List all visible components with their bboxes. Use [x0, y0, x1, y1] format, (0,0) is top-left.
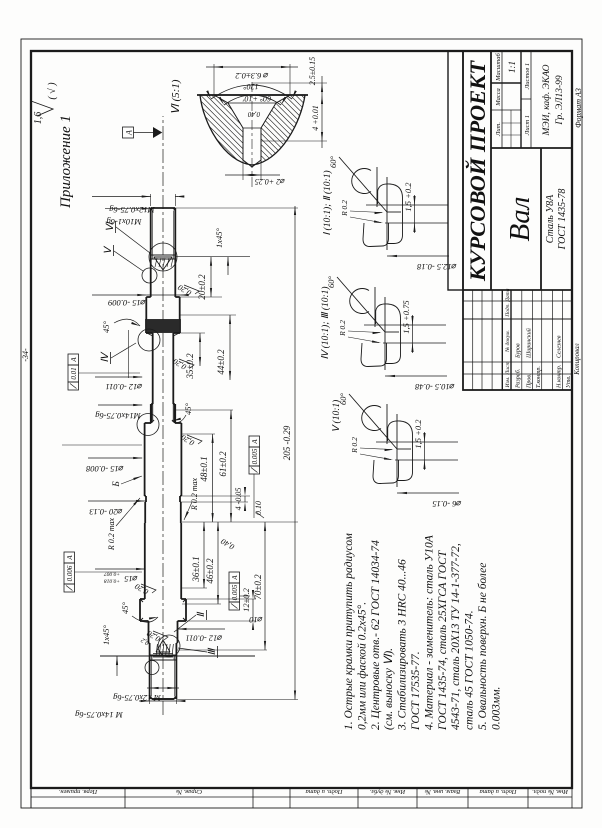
dim 205-0.29 — [294, 206, 296, 700]
svg-text:А: А — [70, 357, 78, 363]
dim 70±0.2 — [264, 522, 266, 650]
svg-text:ГОСТ 1435-74, сталь 25ХГСА ГОС: ГОСТ 1435-74, сталь 25ХГСА ГОСТ — [437, 549, 449, 731]
callout circle knurl left groove — [138, 329, 160, 351]
svg-text:( √ ): ( √ ) — [47, 82, 58, 100]
svg-text:Сталь У8А: Сталь У8А — [545, 194, 556, 243]
svg-text:Ⅵ (5:1): Ⅵ (5:1) — [170, 79, 182, 114]
tolerance frame 0.005|A below left — [229, 602, 240, 610]
svg-text:А: А — [66, 555, 74, 561]
groove detail Ⅰ (10:1); Ⅱ (10:1) dia dim — [387, 255, 449, 257]
thread line right — [152, 211, 154, 256]
groove detail Ⅰ (10:1); Ⅱ (10:1) flank 60deg — [339, 157, 387, 212]
svg-text:205 -0.29: 205 -0.29 — [282, 425, 292, 460]
svg-text:М 12х0.75-6g: М 12х0.75-6g — [113, 693, 162, 703]
svg-text:Утв.: Утв. — [566, 376, 572, 388]
detail VI center hole profile — [214, 95, 243, 160]
svg-text:-34-: -34- — [21, 348, 30, 362]
groove detail Ⅳ (10:1); Ⅲ (10:1) thread crest arc — [350, 288, 369, 313]
strip above title block — [448, 51, 463, 290]
svg-text:44±0.2: 44±0.2 — [216, 349, 226, 375]
dim 12±0.2 — [252, 599, 254, 621]
groove detail Ⅴ (10:1) blob right — [388, 421, 413, 481]
svg-text:46±0.2: 46±0.2 — [205, 558, 215, 584]
title block: list row — [530, 51, 532, 148]
svg-text:4543-71, сталь 20Х13 ТУ 14-1-3: 4543-71, сталь 20Х13 ТУ 14-1-377-72, — [450, 543, 462, 730]
drawing frame — [31, 51, 572, 788]
svg-text:5. Овальность поверхн. Б не бо: 5. Овальность поверхн. Б не более — [477, 563, 489, 730]
svg-text:А: А — [125, 130, 134, 136]
aux line above thin section — [127, 330, 129, 378]
svg-text:2. Центровые отв.- 62 ГОСТ 140: 2. Центровые отв.- 62 ГОСТ 14034-74 — [370, 540, 382, 730]
svg-text:сталь 45 ГОСТ 1050-74.: сталь 45 ГОСТ 1050-74. — [464, 610, 476, 730]
groove detail Ⅳ (10:1); Ⅲ (10:1) groove walls — [364, 324, 446, 326]
svg-text:⌀12 -0.011: ⌀12 -0.011 — [105, 382, 142, 392]
groove detail Ⅴ (10:1) dia dim — [397, 492, 459, 494]
svg-text:А: А — [231, 575, 239, 581]
svg-text:Масштаб: Масштаб — [495, 52, 502, 81]
detail VI dim Ø2+0.25 — [242, 160, 244, 180]
svg-text:ГОСТ 17535-77.: ГОСТ 17535-77. — [410, 651, 422, 731]
shaft centerline — [162, 116, 164, 715]
svg-text:Буров: Буров — [516, 343, 522, 359]
svg-text:4. Материал - заменитель: стал: 4. Материал - заменитель: сталь У10А — [423, 534, 435, 730]
callout circle M14 collar — [137, 414, 159, 436]
svg-text:70±0.2: 70±0.2 — [253, 574, 263, 600]
svg-text:Дата: Дата — [505, 288, 511, 302]
svg-text:3. Стабилизировать 3 HRC 40..: 3. Стабилизировать 3 HRC 40...46 — [397, 559, 409, 731]
svg-text:Формат А3: Формат А3 — [574, 88, 583, 128]
svg-text:Подп.: Подп. — [504, 303, 511, 318]
title block: lit massa masshtab — [501, 51, 503, 148]
dim 20±0.2 — [210, 257, 212, 297]
svg-text:12±0.2: 12±0.2 — [241, 587, 251, 612]
collar chamfers — [140, 618, 143, 621]
svg-text:⌀15 -0.008: ⌀15 -0.008 — [85, 464, 123, 474]
svg-text:⌀10.5 -0.48: ⌀10.5 -0.48 — [414, 382, 455, 392]
svg-text:Взам. инв. №: Взам. инв. № — [425, 788, 461, 795]
svg-text:Листов 1: Листов 1 — [524, 63, 531, 90]
svg-text:45°: 45° — [183, 402, 193, 415]
groove detail Ⅰ (10:1); Ⅱ (10:1) surface lines — [376, 167, 378, 207]
svg-text:Справ. №: Справ. № — [176, 788, 202, 795]
detail VI angle arc 120 — [211, 85, 292, 99]
svg-text:Лит.: Лит. — [495, 122, 502, 137]
detail VI hatching — [190, 0, 310, 283]
svg-text:Б: Б — [111, 481, 121, 488]
svg-text:Селезнев: Селезнев — [557, 335, 563, 358]
svg-text:⌀12 -0.011: ⌀12 -0.011 — [185, 634, 222, 644]
groove detail Ⅰ (10:1); Ⅱ (10:1) groove walls — [366, 204, 448, 206]
svg-text:1,5 +0.2: 1,5 +0.2 — [413, 419, 423, 449]
detail VI blob outline — [200, 95, 305, 165]
dim 35±0.2 — [199, 333, 201, 366]
groove detail Ⅰ (10:1); Ⅱ (10:1) blob left — [363, 223, 389, 247]
svg-text:R 0.2: R 0.2 — [340, 200, 349, 217]
groove detail Ⅴ (10:1) blob left — [373, 460, 399, 484]
svg-text:R 0.2: R 0.2 — [338, 320, 347, 337]
svg-text:36±0.1: 36±0.1 — [191, 556, 201, 582]
svg-text:МЭИ, каф. ЭКАО: МЭИ, каф. ЭКАО — [541, 64, 552, 136]
svg-text:60° +10': 60° +10' — [243, 94, 272, 103]
svg-text:Т.контр.: Т.контр. — [536, 366, 542, 388]
svg-text:4 +0.01: 4 +0.01 — [311, 105, 320, 130]
datum flag A — [123, 127, 134, 138]
left margin columns — [30, 788, 32, 808]
svg-text:R 0.2 max: R 0.2 max — [190, 477, 199, 511]
svg-text:1,5 +0.75: 1,5 +0.75 — [401, 300, 411, 333]
groove detail Ⅴ (10:1) groove walls — [376, 441, 458, 443]
detail VI center hole cutout — [214, 95, 290, 167]
svg-text:А: А — [251, 439, 259, 445]
svg-text:1:1: 1:1 — [507, 61, 517, 73]
groove detail Ⅴ (10:1) surface lines — [386, 404, 388, 444]
detail VI axis — [251, 81, 253, 187]
svg-text:60°: 60° — [326, 275, 336, 288]
svg-text:0.10: 0.10 — [254, 501, 263, 515]
svg-text:60°: 60° — [328, 155, 338, 168]
svg-text:+0.007: +0.007 — [104, 571, 120, 577]
M14 threaded collar — [150, 404, 152, 423]
extension up right end — [100, 655, 255, 657]
svg-text:Разраб.: Разраб. — [515, 369, 522, 389]
tolerance frame 0.006|A — [64, 584, 75, 592]
svg-text:ГОСТ 1435-78: ГОСТ 1435-78 — [557, 189, 568, 251]
svg-text:М12х0.75-6g: М12х0.75-6g — [109, 205, 156, 215]
groove detail Ⅴ (10:1) dim 1.5 — [424, 432, 426, 470]
center hole left (callouts) — [158, 635, 180, 657]
svg-text:Пров.: Пров. — [527, 374, 533, 389]
svg-text:+0.018: +0.018 — [104, 578, 120, 584]
groove detail Ⅳ (10:1); Ⅲ (10:1) dia dim — [385, 375, 447, 377]
svg-text:Ⅰ (10:1); Ⅱ (10:1): Ⅰ (10:1); Ⅱ (10:1) — [322, 170, 333, 235]
dim 1x45 right — [227, 257, 229, 275]
right end face — [151, 207, 176, 209]
svg-text:№ докум.: № докум. — [504, 330, 511, 353]
svg-text:1. Острые крамки притупить рад: 1. Острые крамки притупить радиусом — [343, 532, 355, 730]
title block: left part columns — [463, 373, 572, 375]
groove detail Ⅳ (10:1); Ⅲ (10:1) dim 1.5 — [412, 315, 414, 353]
svg-text:Ⅳ (10:1); Ⅲ (10:1): Ⅳ (10:1); Ⅲ (10:1) — [320, 286, 331, 359]
svg-text:Перв. примен.: Перв. примен. — [58, 788, 98, 795]
svg-text:1,5 +0.2: 1,5 +0.2 — [403, 182, 413, 212]
svg-text:Лист 1: Лист 1 — [524, 115, 531, 136]
groove detail Ⅳ (10:1); Ⅲ (10:1) surface lines — [374, 287, 376, 327]
shaft outline — [152, 698, 174, 700]
groove detail Ⅴ (10:1) thread crest arc — [362, 406, 381, 431]
svg-text:4 -0.05: 4 -0.05 — [234, 488, 243, 511]
title block: big cell КУРСОВОЙ ПРОЕКТ — [463, 289, 572, 291]
center hole right (detail VI callout) — [149, 243, 177, 271]
detail VI depth dims — [261, 140, 327, 142]
svg-text:0,40: 0,40 — [247, 110, 260, 118]
dim 48±0.1 — [212, 434, 214, 522]
svg-text:⌀10: ⌀10 — [248, 615, 262, 625]
groove detail Ⅰ (10:1); Ⅱ (10:1) dim 1.5 — [414, 195, 416, 233]
detail VI end face — [197, 94, 308, 96]
detail VI angle arc 60+10 — [224, 95, 281, 105]
svg-text:⌀ 6.3±0.2: ⌀ 6.3±0.2 — [235, 71, 269, 81]
svg-text:⌀6 -0.15: ⌀6 -0.15 — [432, 499, 461, 509]
dim 4-0.05 — [244, 496, 246, 502]
svg-text:⌀2 +0.25: ⌀2 +0.25 — [255, 177, 285, 186]
groove detail Ⅳ (10:1); Ⅲ (10:1) blob right — [376, 304, 401, 364]
svg-text:Ⅲ: Ⅲ — [207, 647, 218, 655]
svg-text:45°: 45° — [120, 601, 130, 614]
thread line left M12 — [151, 660, 153, 697]
svg-text:⌀12.5 -0.18: ⌀12.5 -0.18 — [416, 262, 457, 272]
extension lines — [177, 699, 298, 701]
svg-text:Подп. и дата: Подп. и дата — [479, 788, 517, 795]
groove detail Ⅴ (10:1) flank 60deg — [349, 394, 397, 449]
leader line X383 — [62, 444, 142, 446]
knurled band — [146, 320, 180, 333]
svg-text:Изм.: Изм. — [505, 377, 511, 389]
svg-text:Подп. и дата: Подп. и дата — [305, 788, 343, 795]
dim 46±0.2 — [217, 522, 219, 604]
svg-text:М 14х0.75-6g: М 14х0.75-6g — [75, 710, 124, 720]
svg-text:Инв. № дубл.: Инв. № дубл. — [369, 788, 406, 795]
svg-text:Лист: Лист — [505, 362, 511, 376]
thread relief groove left — [150, 659, 177, 661]
svg-text:Ширинский: Ширинский — [526, 328, 533, 359]
svg-text:R 0.2 max: R 0.2 max — [107, 517, 116, 551]
svg-text:Масса: Масса — [495, 88, 502, 106]
groove detail Ⅰ (10:1); Ⅱ (10:1) blob right — [378, 184, 403, 244]
svg-text:0.01: 0.01 — [70, 367, 78, 379]
tolerance frame 0.01|A — [68, 382, 79, 390]
svg-text:⌀15: ⌀15 — [124, 574, 138, 584]
svg-text:КУРСОВОЙ ПРОЕКТ: КУРСОВОЙ ПРОЕКТ — [464, 60, 490, 282]
dim 44±0.2 — [229, 315, 231, 380]
dim 61±0.2 — [230, 410, 232, 522]
groove detail Ⅰ (10:1); Ⅱ (10:1) thread crest arc — [352, 169, 371, 194]
dim 36±0.1 — [203, 522, 205, 588]
svg-text:0.003мм.: 0.003мм. — [490, 687, 502, 730]
svg-text:R 0.2: R 0.2 — [350, 437, 359, 454]
svg-text:60°: 60° — [338, 392, 348, 405]
tolerance frame 0.005|A below right — [249, 466, 260, 474]
svg-text:1х45°: 1х45° — [101, 624, 111, 645]
svg-text:2.5±0.15: 2.5±0.15 — [308, 57, 317, 85]
svg-text:0.005: 0.005 — [251, 448, 259, 464]
left end chamfer — [150, 697, 153, 700]
groove detail Ⅳ (10:1); Ⅲ (10:1) flank 60deg — [337, 277, 385, 332]
title block: name cell Вал — [491, 147, 572, 149]
svg-text:0.005: 0.005 — [231, 584, 239, 600]
svg-text:Гр. ЭЛ13-99: Гр. ЭЛ13-99 — [555, 75, 565, 126]
svg-text:48±0.1: 48±0.1 — [199, 456, 209, 481]
svg-text:20±0.2: 20±0.2 — [197, 274, 207, 300]
title block: left part rows — [472, 290, 474, 390]
svg-text:(см. выноску Ⅵ).: (см. выноску Ⅵ). — [383, 648, 395, 730]
svg-text:Вал: Вал — [504, 197, 536, 242]
svg-text:45°: 45° — [101, 320, 111, 333]
svg-text:120°: 120° — [243, 82, 259, 91]
title block outline — [463, 51, 572, 390]
groove detail Ⅳ (10:1); Ⅲ (10:1) blob left — [361, 343, 387, 367]
svg-text:1х45°: 1х45° — [214, 227, 224, 248]
svg-text:⌀15 -0.009: ⌀15 -0.009 — [107, 298, 145, 308]
detail VI dim Ø6.3 — [213, 64, 215, 95]
svg-text:Приложение 1: Приложение 1 — [58, 115, 74, 209]
svg-text:М10х1-6g: М10х1-6g — [107, 217, 143, 227]
svg-text:М14х0.75-6g: М14х0.75-6g — [95, 411, 142, 421]
svg-text:⌀20 -0.13: ⌀20 -0.13 — [89, 507, 122, 517]
svg-text:Копировал: Копировал — [573, 343, 581, 375]
svg-text:Н.контр.: Н.контр. — [557, 365, 563, 389]
thread relief groove right — [151, 258, 176, 260]
svg-text:0.006: 0.006 — [66, 565, 74, 581]
svg-text:61±0.2: 61±0.2 — [218, 451, 228, 477]
svg-text:Инв. № подл.: Инв. № подл. — [532, 788, 569, 795]
svg-text:0,2мм или фаской 0.2х45°.: 0,2мм или фаской 0.2х45°. — [355, 602, 368, 730]
